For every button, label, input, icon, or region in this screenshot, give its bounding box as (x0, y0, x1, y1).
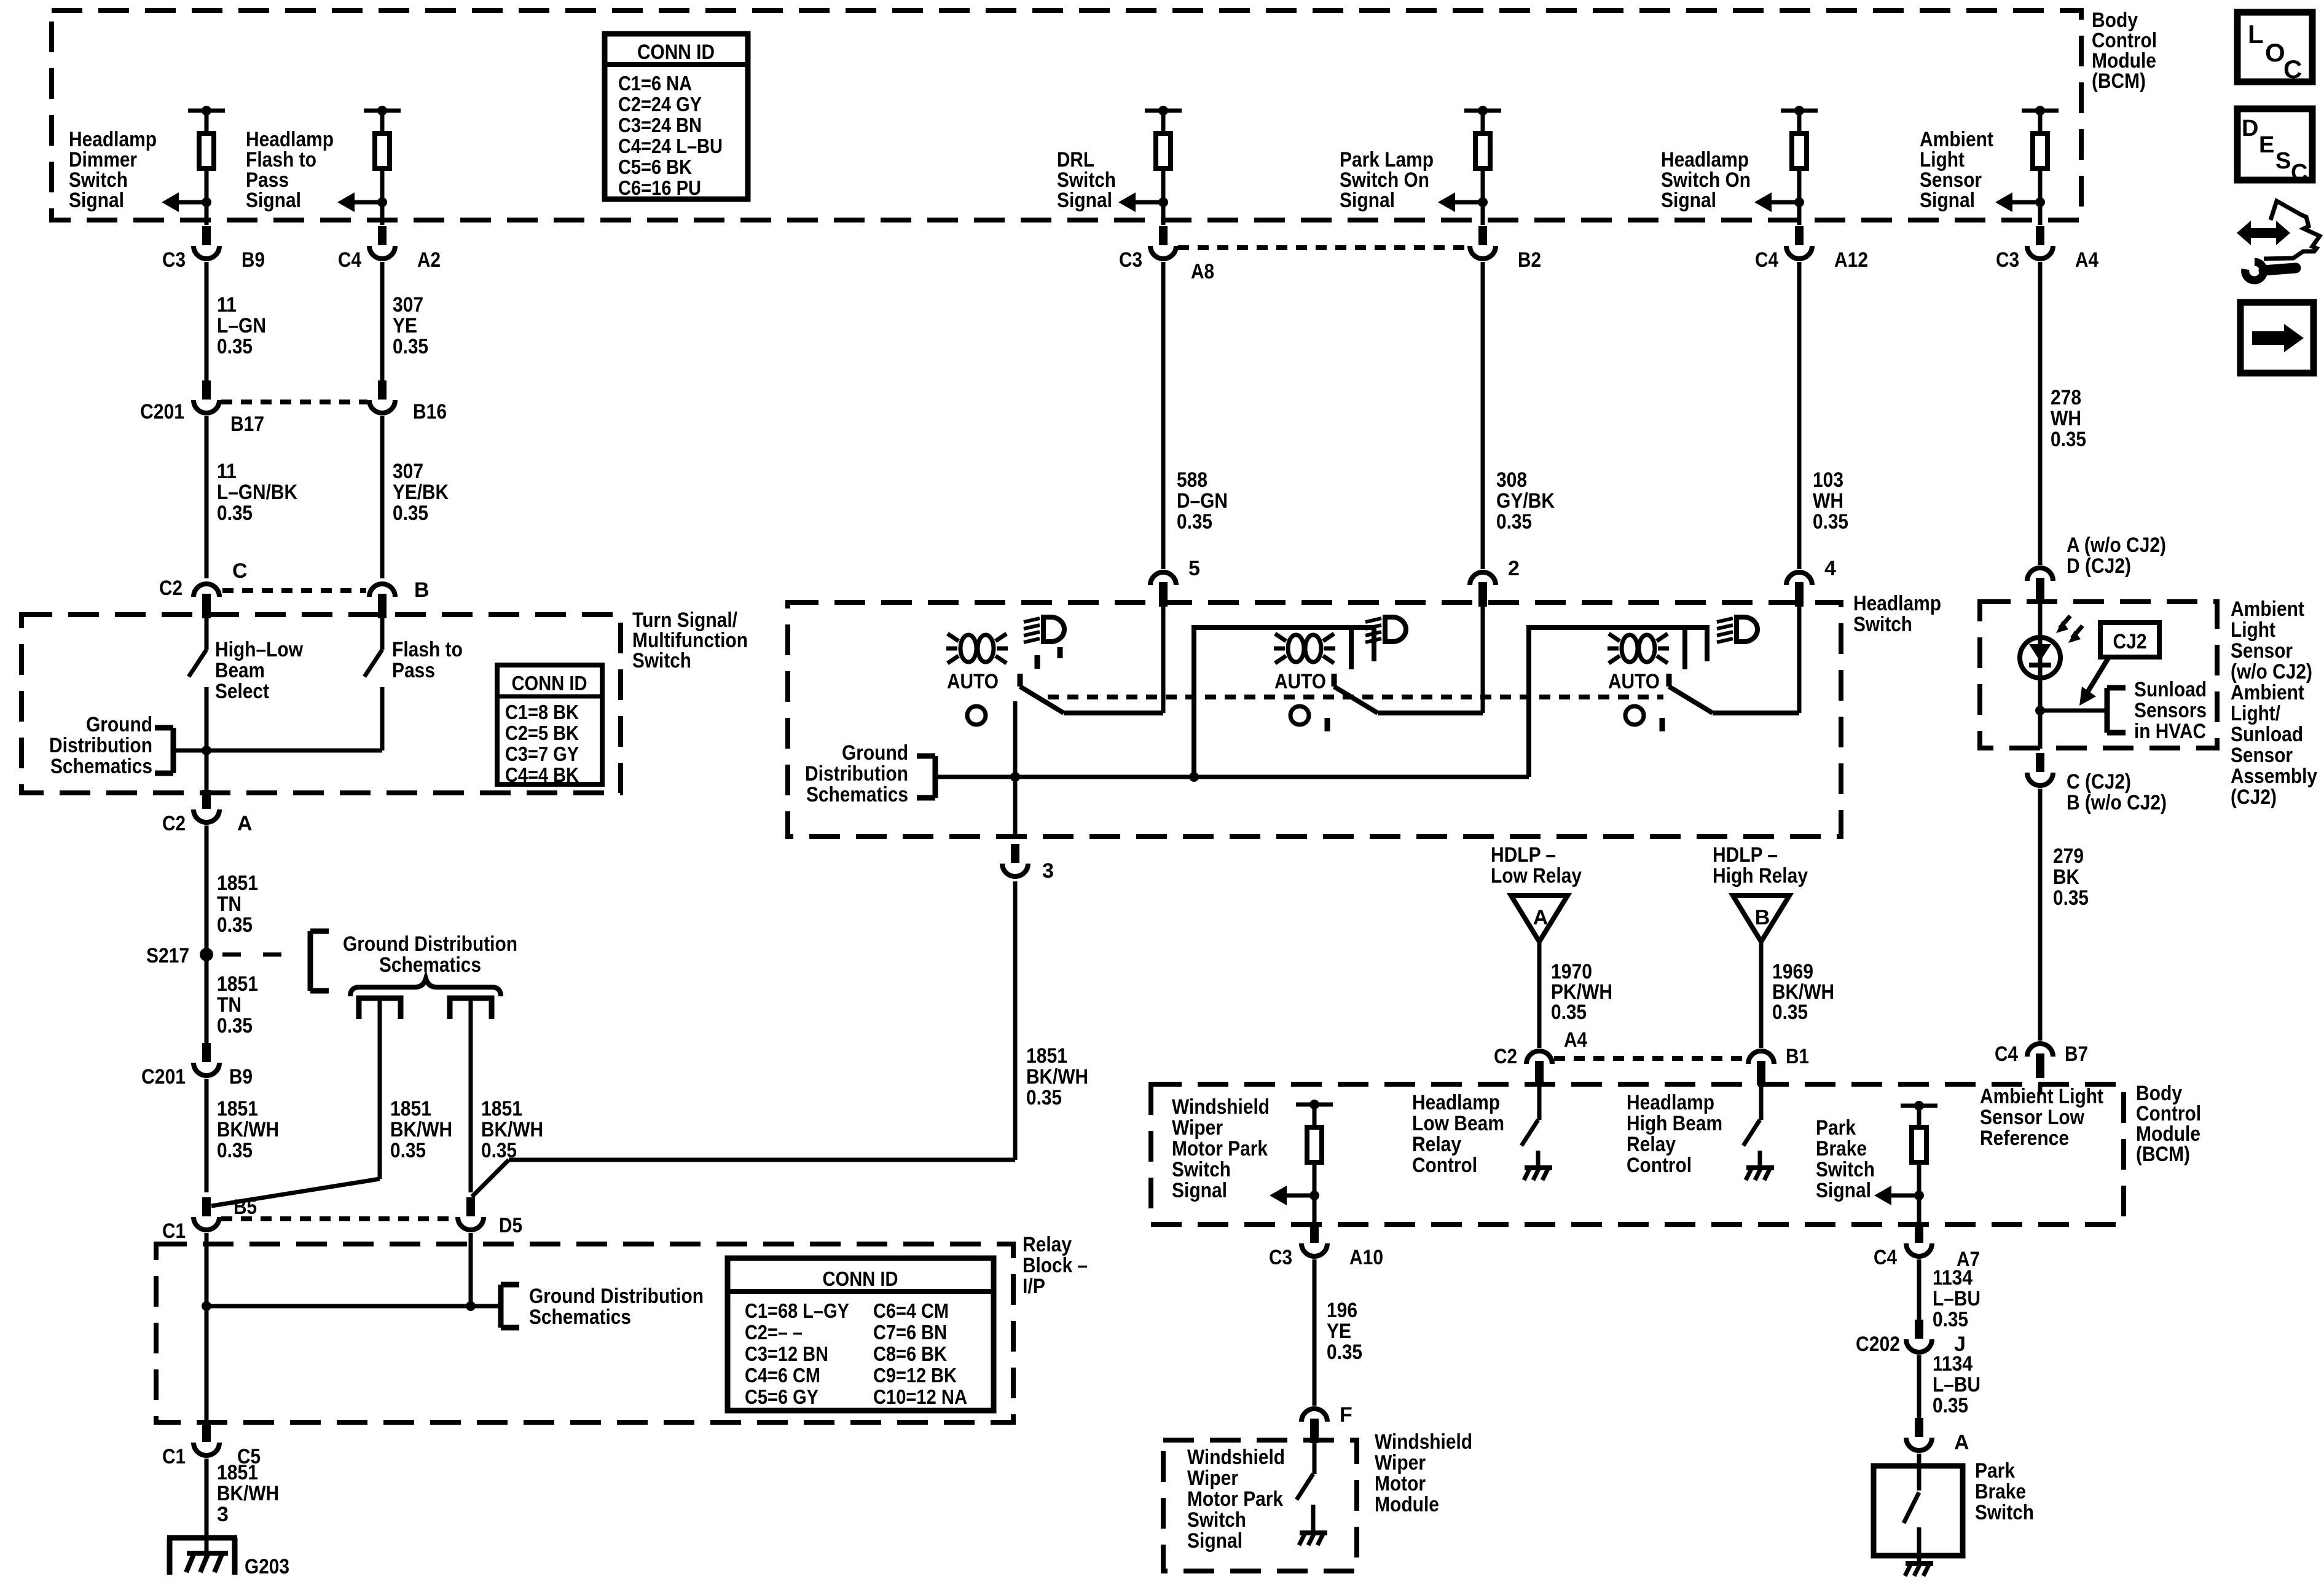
relay triangle B (1733, 896, 1789, 942)
switch headlamp high beam relay control (1759, 1085, 1764, 1120)
park lamps icon (960, 635, 976, 662)
wire from terminal 2 (469, 1001, 473, 1192)
svg-text:1851: 1851 (481, 1097, 522, 1120)
svg-text:C6=4 CM: C6=4 CM (873, 1299, 949, 1322)
wire relay A to C2/A4 (1537, 942, 1542, 1048)
svg-text:AUTO: AUTO (1608, 670, 1660, 693)
svg-text:BK/WH: BK/WH (217, 1482, 279, 1505)
wire 307 YE (380, 262, 385, 386)
svg-text:BK/WH: BK/WH (217, 1118, 279, 1141)
svg-text:C3=7 GY: C3=7 GY (505, 742, 579, 765)
connector C202/J (1915, 1320, 1923, 1339)
svg-text:1134: 1134 (1933, 1352, 1973, 1376)
connector C201/B17 (202, 380, 211, 400)
diagonal wire to D5 (472, 1160, 509, 1197)
junction dot (sunload) (2035, 706, 2045, 715)
svg-text:O: O (2265, 38, 2285, 67)
connector B16 (378, 380, 387, 400)
svg-text:A: A (237, 812, 253, 835)
svg-text:Signal: Signal (1187, 1529, 1242, 1553)
headlamp beam icon (1043, 617, 1064, 642)
resistor leg: Headlamp Dimmer Switch Signal (188, 109, 225, 113)
wire to sunload bracket (2040, 709, 2107, 713)
CONN ID table (BCM) (605, 34, 748, 199)
svg-text:0.35: 0.35 (1177, 510, 1212, 534)
connector C3/A10 (1310, 1224, 1319, 1243)
junction dot group2 ground (1189, 772, 1199, 782)
svg-text:C4: C4 (338, 248, 361, 272)
connector F (1310, 1419, 1319, 1443)
svg-text:1851: 1851 (390, 1097, 431, 1120)
photodiode (2020, 637, 2060, 678)
svg-text:Relay: Relay (1023, 1233, 1072, 1256)
svg-text:D: D (2242, 116, 2258, 141)
svg-text:C: C (2291, 160, 2307, 186)
connector A (park brake) (1915, 1418, 1923, 1437)
position dash (1058, 647, 1063, 658)
svg-text:Headlamp: Headlamp (1627, 1091, 1714, 1114)
svg-text:B5: B5 (234, 1195, 257, 1219)
switch blade (1669, 687, 1713, 713)
connector C2/A (202, 790, 211, 809)
DESC icon box (2237, 109, 2312, 180)
svg-text:C3: C3 (1996, 248, 2019, 272)
ground (high beam relay) (1758, 1151, 1762, 1167)
svg-text:1851: 1851 (217, 1097, 258, 1120)
ground bracket (relay block) (501, 1282, 519, 1288)
svg-text:Sensor: Sensor (2231, 744, 2293, 767)
svg-text:Brake: Brake (1816, 1137, 1867, 1160)
resistor leg: Park Lamp Switch On Signal (1464, 109, 1501, 113)
svg-text:0.35: 0.35 (393, 502, 428, 525)
connector C4/B7 (2036, 1053, 2044, 1078)
svg-text:307: 307 (393, 293, 423, 317)
connector C4/A2 (378, 226, 387, 245)
wire 1851 TN lower (205, 955, 209, 1045)
svg-text:D (CJ2): D (CJ2) (2067, 554, 2131, 578)
junction dot (relay ground right) (466, 1301, 476, 1311)
svg-text:(BCM): (BCM) (2092, 69, 2146, 93)
dotted link B17-B16 (221, 400, 367, 404)
svg-text:C: C (2283, 55, 2302, 84)
svg-text:C202: C202 (1856, 1333, 1900, 1356)
pole wire group1 (1013, 701, 1018, 839)
svg-text:C5=6 BK: C5=6 BK (618, 156, 692, 178)
signal arrow: windshield wiper park switch (1309, 1191, 1319, 1200)
svg-text:Assembly: Assembly (2231, 765, 2317, 788)
svg-text:C4: C4 (1874, 1246, 1897, 1269)
brace (350, 979, 501, 996)
svg-text:C4: C4 (1755, 248, 1778, 272)
svg-text:in HVAC: in HVAC (2134, 720, 2206, 743)
svg-text:I/P: I/P (1023, 1275, 1045, 1298)
CONN ID table (turn signal switch) (497, 665, 602, 784)
connector C1/B5 (202, 1197, 211, 1216)
svg-text:A4: A4 (2075, 248, 2098, 272)
wire 11 L-GN (205, 262, 209, 386)
svg-text:0.35: 0.35 (1813, 510, 1848, 534)
Ambient Light Sensor dashed box (1980, 602, 2217, 748)
wire up to connector (1797, 602, 1802, 713)
signal arrow: Ambient Light Sensor Signal (2035, 197, 2045, 207)
svg-text:CJ2: CJ2 (2113, 630, 2147, 653)
sunload bracket (2107, 685, 2126, 691)
wire from terminal 1 (378, 1001, 382, 1179)
svg-text:5: 5 (1188, 557, 1200, 580)
svg-text:11: 11 (217, 293, 237, 317)
Headlamp Switch dashed box (788, 602, 1841, 837)
svg-text:A2: A2 (417, 248, 441, 272)
switch headlamp low beam relay control (1537, 1085, 1542, 1120)
svg-text:0.35: 0.35 (1327, 1341, 1362, 1364)
terminal 2 (ground distribution) (450, 998, 492, 1019)
resistor leg: Headlamp Flash to Pass Signal (364, 109, 401, 113)
svg-text:Beam: Beam (215, 659, 265, 682)
svg-text:103: 103 (1813, 468, 1843, 492)
connector C2/A4 (1535, 1061, 1544, 1085)
svg-text:(w/o CJ2): (w/o CJ2) (2231, 660, 2312, 683)
wiper park switch (1313, 1439, 1317, 1474)
connector A/D (2036, 578, 2044, 602)
svg-text:L–GN: L–GN (217, 314, 266, 337)
svg-text:CONN ID: CONN ID (637, 41, 715, 64)
svg-text:BK/WH: BK/WH (390, 1118, 452, 1141)
wire 279 BK (2038, 789, 2043, 1041)
svg-text:C1=6 NA: C1=6 NA (618, 72, 692, 95)
svg-text:Relay: Relay (1412, 1133, 1461, 1156)
svg-text:GY/BK: GY/BK (1496, 489, 1555, 513)
svg-text:4: 4 (1824, 557, 1836, 580)
svg-text:Ambient: Ambient (2231, 681, 2304, 704)
rail leg a group2 (1349, 628, 1354, 669)
wire High-Low pole (205, 687, 209, 795)
dotted link C-B (222, 588, 366, 593)
svg-text:278: 278 (2051, 386, 2081, 409)
svg-text:B16: B16 (413, 400, 447, 423)
svg-text:Pass: Pass (392, 659, 435, 682)
connector C3/B9 (202, 226, 211, 245)
signal arrow: Headlamp Dimmer Switch Signal (202, 197, 211, 207)
svg-text:WH: WH (1813, 489, 1843, 513)
junction dot group1 ground (1010, 772, 1020, 782)
svg-text:Signal: Signal (246, 189, 301, 212)
svg-text:3: 3 (217, 1503, 229, 1526)
wire to border (1161, 202, 1166, 225)
svg-text:3: 3 (1042, 859, 1054, 883)
svg-text:C1: C1 (162, 1445, 186, 1468)
connector D5 (466, 1197, 475, 1216)
wire to border (380, 202, 385, 225)
svg-text:C5=6 GY: C5=6 GY (745, 1385, 819, 1408)
svg-text:Ambient Light: Ambient Light (1980, 1085, 2103, 1108)
position dash (1035, 655, 1040, 669)
svg-text:Control: Control (1412, 1154, 1477, 1177)
forward arrow icon box (2240, 302, 2314, 373)
svg-text:1851: 1851 (1026, 1044, 1067, 1068)
svg-text:C2: C2 (159, 577, 183, 600)
svg-text:0.35: 0.35 (2053, 886, 2089, 910)
svg-text:A8: A8 (1191, 260, 1214, 283)
svg-text:CONN ID: CONN ID (512, 672, 587, 695)
svg-text:Control: Control (1627, 1154, 1692, 1177)
dotted link B5-D5 (221, 1216, 456, 1221)
LOC icon box (2237, 12, 2312, 82)
svg-text:279: 279 (2053, 845, 2084, 868)
svg-text:A (w/o CJ2): A (w/o CJ2) (2067, 534, 2166, 557)
relay triangle A (1511, 896, 1568, 942)
signal arrow: Park Lamp Switch On Signal (1478, 197, 1488, 207)
dotted link A8-B2 (1178, 245, 1468, 250)
svg-text:Flash to: Flash to (392, 638, 463, 661)
svg-text:Low Relay: Low Relay (1491, 864, 1582, 888)
svg-text:E: E (2259, 132, 2274, 158)
wire 1134 L-BU upper (1917, 1259, 1922, 1329)
svg-text:Sunload: Sunload (2134, 678, 2207, 701)
svg-text:C4=4 BK: C4=4 BK (505, 763, 579, 786)
rail group2 (1194, 628, 1376, 777)
svg-text:S: S (2275, 148, 2291, 174)
wire into Flash to Pass switch (380, 615, 385, 650)
svg-text:High Beam: High Beam (1627, 1112, 1722, 1135)
svg-text:C2=24 GY: C2=24 GY (618, 93, 702, 116)
svg-text:HDLP –: HDLP – (1491, 843, 1556, 867)
svg-text:Ground: Ground (86, 713, 152, 736)
svg-text:0.35: 0.35 (1772, 1001, 1808, 1024)
svg-text:YE: YE (393, 314, 417, 337)
switch stub (1018, 674, 1023, 687)
diagonal wire terminal1 to C1/B5 (211, 1179, 380, 1206)
svg-text:C9=12 BK: C9=12 BK (873, 1364, 957, 1387)
wire to border (1481, 202, 1485, 225)
park brake switch blade (1904, 1492, 1919, 1523)
dotted rotary position line (1048, 695, 1663, 699)
wire up to connector (1161, 602, 1166, 713)
svg-text:Sensor Low: Sensor Low (1980, 1106, 2084, 1129)
svg-text:Distribution: Distribution (805, 762, 908, 786)
svg-text:B2: B2 (1518, 248, 1541, 272)
svg-text:C6=16 PU: C6=16 PU (618, 176, 701, 199)
svg-text:Select: Select (215, 680, 269, 703)
off position circle (1625, 706, 1644, 725)
headlamp beam icon (1737, 617, 1757, 642)
svg-text:0.35: 0.35 (2051, 428, 2086, 451)
svg-text:B (w/o CJ2): B (w/o CJ2) (2067, 791, 2167, 814)
splice S217 (200, 948, 213, 961)
svg-text:High Relay: High Relay (1713, 864, 1808, 888)
svg-text:1851: 1851 (217, 1461, 258, 1484)
svg-text:Motor Park: Motor Park (1187, 1487, 1283, 1511)
wire through sensor (2038, 603, 2043, 749)
svg-text:Signal: Signal (1661, 189, 1716, 212)
svg-text:A12: A12 (1834, 248, 1868, 272)
connector 5 (1159, 582, 1168, 607)
Turn Signal/Multifunction Switch dashed box (22, 615, 621, 793)
wire 307 YE/BK (380, 416, 385, 578)
svg-text:Reference: Reference (1980, 1127, 2069, 1150)
ground (low beam relay) (1536, 1151, 1541, 1167)
resistor leg: DRL Switch Signal (1145, 109, 1182, 113)
Body Control Module (BCM) lower dashed box (1151, 1084, 2124, 1224)
svg-text:Signal: Signal (1340, 189, 1395, 212)
off position circle (1290, 706, 1309, 725)
wire 1851 BK/WH to C1/B5 (205, 1079, 209, 1192)
position dash (1325, 718, 1330, 731)
svg-text:HDLP –: HDLP – (1713, 843, 1778, 867)
svg-text:C201: C201 (140, 400, 184, 423)
wire 308 GY/BK (1481, 262, 1485, 569)
wire 278 WH (2038, 262, 2043, 565)
svg-text:Ground Distribution: Ground Distribution (529, 1285, 704, 1308)
svg-text:C (CJ2): C (CJ2) (2067, 770, 2131, 793)
svg-text:C3=12 BN: C3=12 BN (745, 1342, 828, 1365)
resistor leg: Windshield Wiper Motor Park Switch Signal (1296, 1103, 1333, 1107)
ground (wiper module) (1311, 1505, 1316, 1532)
svg-text:L: L (2248, 20, 2264, 49)
svg-text:TN: TN (217, 892, 241, 916)
svg-text:Headlamp: Headlamp (1412, 1091, 1500, 1114)
blade output wire (1713, 711, 1799, 715)
svg-text:BK/WH: BK/WH (481, 1118, 543, 1141)
svg-text:Sunload: Sunload (2231, 723, 2303, 746)
svg-text:S217: S217 (146, 944, 189, 967)
wire 588 D-GN (1161, 262, 1166, 569)
svg-text:A: A (1954, 1431, 1969, 1454)
ground (park brake switch) (1906, 1561, 1933, 1566)
svg-text:L–GN/BK: L–GN/BK (217, 481, 297, 504)
svg-text:B: B (1755, 906, 1770, 929)
connector C3/A4 (2036, 226, 2044, 245)
svg-text:C1=8 BK: C1=8 BK (505, 701, 579, 723)
svg-text:(CJ2): (CJ2) (2231, 786, 2277, 809)
svg-text:D5: D5 (499, 1214, 522, 1237)
wire to border (1797, 202, 1802, 225)
signal arrow: DRL Switch Signal (1158, 197, 1168, 207)
ground bracket (turn signal box) (155, 725, 173, 731)
wire to border (205, 202, 209, 225)
svg-text:Wiper: Wiper (1375, 1451, 1426, 1475)
wire 1851 TN upper (205, 825, 209, 948)
svg-text:A10: A10 (1349, 1246, 1383, 1269)
ground bracket (S217) (310, 929, 329, 934)
svg-text:Low Beam: Low Beam (1412, 1112, 1504, 1135)
dotted link A4-B1 (1554, 1056, 1746, 1061)
connector C2/C (202, 594, 211, 618)
CONN ID table (relay block) (728, 1258, 994, 1411)
rail leg b group2 (1372, 628, 1376, 661)
svg-text:C4=6 CM: C4=6 CM (745, 1364, 820, 1387)
svg-text:C2: C2 (162, 812, 186, 835)
svg-text:Wiper: Wiper (1187, 1467, 1238, 1490)
svg-text:AUTO: AUTO (1274, 670, 1326, 693)
wire 1851 horizontal run (509, 1158, 1015, 1162)
svg-text:C2=– –: C2=– – (745, 1321, 803, 1344)
svg-text:YE/BK: YE/BK (393, 481, 449, 504)
ground G203 (167, 1535, 237, 1541)
wire C1/B5 into relay block (205, 1233, 209, 1427)
connector B (378, 594, 387, 618)
ground wire (headlamp switch) (935, 775, 1529, 779)
svg-text:2: 2 (1508, 557, 1520, 580)
svg-text:C1=68 L–GY: C1=68 L–GY (745, 1299, 849, 1322)
svg-text:B9: B9 (241, 248, 265, 272)
wire relay B to B1 (1759, 942, 1764, 1048)
svg-text:Signal: Signal (1920, 189, 1975, 212)
CJ2 callout box (2100, 623, 2159, 657)
svg-text:1134: 1134 (1933, 1266, 1973, 1290)
svg-text:C4=24 L–BU: C4=24 L–BU (618, 135, 723, 157)
connector B2 (1478, 226, 1487, 245)
svg-text:A4: A4 (1564, 1028, 1587, 1052)
CJ2 arrow (2087, 657, 2109, 693)
svg-text:B7: B7 (2065, 1042, 2088, 1066)
svg-text:A: A (1533, 906, 1549, 929)
svg-text:Motor: Motor (1375, 1472, 1426, 1495)
svg-text:Signal: Signal (1816, 1179, 1871, 1202)
svg-text:Ground Distribution: Ground Distribution (343, 932, 517, 956)
park lamps icon (1288, 635, 1304, 662)
svg-text:High–Low: High–Low (215, 638, 303, 661)
Body Control Module (BCM) dashed box (52, 10, 2081, 220)
blade output wire (1064, 711, 1163, 715)
wrench and arrows icon (2250, 228, 2278, 238)
svg-text:Schematics: Schematics (529, 1305, 631, 1329)
svg-text:Light: Light (2231, 618, 2275, 642)
Park Brake Switch box (1874, 1466, 1963, 1556)
wire 1134 L-BU lower (1917, 1355, 1922, 1428)
connector C1/C5 (202, 1423, 211, 1442)
Windshield Wiper Motor Module dashed box (1163, 1440, 1357, 1571)
svg-text:0.35: 0.35 (217, 913, 253, 937)
blade output wire (1378, 711, 1483, 715)
dash leader S217 to bracket (222, 953, 241, 957)
svg-text:Schematics: Schematics (50, 755, 152, 778)
svg-text:Headlamp: Headlamp (1853, 592, 1941, 615)
switch blade (1020, 687, 1064, 713)
svg-text:B9: B9 (229, 1065, 253, 1089)
svg-text:Park: Park (1816, 1116, 1856, 1140)
svg-text:(BCM): (BCM) (2136, 1143, 2190, 1166)
svg-text:0.35: 0.35 (217, 1139, 253, 1162)
svg-text:Signal: Signal (1057, 189, 1112, 212)
svg-text:D–GN: D–GN (1177, 489, 1228, 513)
wire 1851 from connector 3 (vertical) (1013, 881, 1018, 1160)
wire into park brake switch (1917, 1454, 1922, 1490)
connector 2 (1478, 582, 1487, 607)
svg-text:C2=5 BK: C2=5 BK (505, 722, 579, 744)
svg-text:Module: Module (1375, 1493, 1439, 1516)
svg-text:C: C (232, 559, 248, 583)
svg-text:C8=6 BK: C8=6 BK (873, 1342, 947, 1365)
Relay Block I/P dashed box (156, 1244, 1013, 1422)
svg-text:C201: C201 (141, 1065, 186, 1089)
svg-text:Ground: Ground (842, 741, 908, 765)
svg-text:BK: BK (2053, 865, 2079, 889)
wire to border (2038, 202, 2043, 225)
signal arrow: Headlamp Flash to Pass Signal (377, 197, 387, 207)
svg-text:Sensors: Sensors (2134, 699, 2207, 722)
svg-text:1851: 1851 (217, 972, 258, 996)
svg-text:TN: TN (217, 993, 241, 1017)
svg-text:0.35: 0.35 (1933, 1308, 1968, 1331)
connector C201/B9 (202, 1043, 211, 1062)
svg-text:B: B (414, 578, 430, 602)
svg-text:Switch: Switch (1816, 1158, 1875, 1181)
svg-text:WH: WH (2051, 407, 2081, 430)
position dash (1660, 718, 1665, 731)
svg-text:Brake: Brake (1975, 1480, 2026, 1503)
svg-text:0.35: 0.35 (217, 502, 253, 525)
connector B1 (1757, 1061, 1765, 1085)
